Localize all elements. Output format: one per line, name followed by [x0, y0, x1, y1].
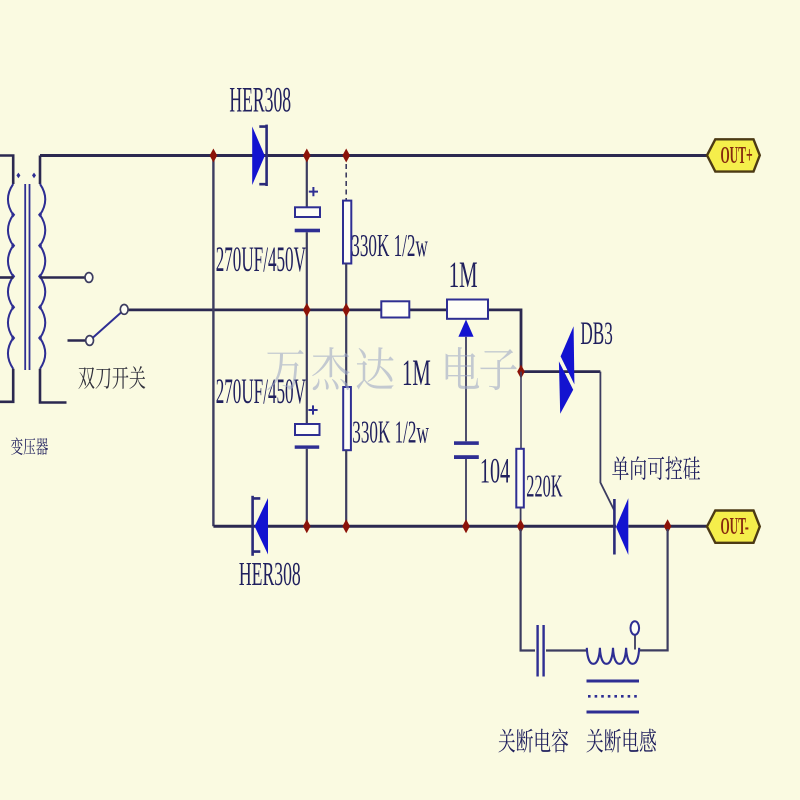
diode D2 HER308 — [253, 496, 268, 556]
inductor tap stub — [634, 635, 636, 650]
resistor R4 220K — [516, 449, 524, 508]
junction bottom bus at R branch — [342, 519, 350, 533]
capacitor C4 snubber — [538, 625, 544, 677]
transformer polarity dot right — [32, 173, 36, 179]
resistor R1 branch dashed wire upper — [345, 156, 347, 201]
wire 220K lower thin — [520, 508, 522, 527]
resistor R3 horizontal — [381, 301, 409, 317]
watermark 万杰达电子 — [267, 347, 516, 390]
wire transformer primary top lead — [0, 156, 13, 185]
switch S1 bottom contact — [86, 336, 94, 346]
thyristor SCR — [614, 498, 628, 555]
inductor L1 — [587, 648, 639, 664]
potentiometer RP 1M body — [447, 300, 488, 319]
inductor core bar 2 — [587, 711, 640, 714]
wire inductor right up to bus — [640, 529, 668, 650]
svg-text:OUT+: OUT+ — [721, 143, 753, 170]
svg-text:OUT-: OUT- — [721, 514, 749, 541]
junction bottom bus at C branch — [303, 519, 311, 533]
svg-text:330K 1/2w: 330K 1/2w — [352, 414, 429, 450]
svg-text:270UF/450V: 270UF/450V — [216, 240, 307, 280]
wire switch lower stub — [68, 339, 86, 342]
junction middle bus at R branch — [342, 303, 350, 317]
resistor R2 330K 1/2w — [343, 387, 351, 450]
transformer winding cusp dots right — [38, 212, 42, 217]
switch S1 blade — [93, 312, 121, 337]
switch S1 top contact — [85, 273, 93, 283]
wire transformer primary bottom lead — [0, 369, 13, 402]
transformer polarity dot left — [16, 173, 20, 179]
wire 220K upper thin — [520, 372, 522, 449]
svg-text:220K: 220K — [526, 469, 563, 504]
junction bottom bus at C3 — [462, 519, 470, 533]
junction top bus at C1 — [303, 149, 311, 163]
wire pot right to vertical drop — [488, 310, 521, 372]
terminal OUT- — [707, 511, 760, 543]
junction top bus at R1 — [342, 149, 350, 163]
label snubber inductor 关断电感 — [587, 729, 603, 753]
capacitor C3 104 — [454, 441, 479, 459]
svg-text:DB3: DB3 — [580, 315, 612, 351]
wire C3 lower — [465, 459, 467, 526]
transformer T1 secondary winding — [40, 184, 45, 369]
wire middle bus — [129, 308, 382, 311]
wire left vertical bus — [212, 156, 214, 527]
capacitor C2 plus sign — [308, 405, 317, 414]
wire transformer secondary bottom lead — [40, 369, 67, 403]
wire cap to inductor — [546, 649, 587, 651]
label switch 双刀开关 — [78, 367, 94, 389]
svg-text:330K 1/2w: 330K 1/2w — [351, 227, 428, 263]
label transformer 变压器 — [11, 437, 23, 455]
junction middle bus at C branch — [303, 303, 311, 317]
inductor core bar 1 — [587, 680, 640, 683]
diac DB3 — [559, 326, 575, 414]
transformer T1 primary winding — [8, 184, 13, 369]
wire transformer secondary top lead — [39, 156, 42, 185]
inductor core dotted line — [588, 695, 639, 698]
wire snubber left drop — [521, 529, 535, 651]
capacitor C1 branch wire lower — [306, 232, 308, 424]
resistor R2 branch wire lower — [345, 450, 347, 526]
resistor R1 330K 1/2w — [343, 201, 351, 264]
wire bottom bus right of SCR — [628, 525, 707, 528]
label snubber cap 关断电容 — [499, 729, 515, 753]
wire DB3 to gate drop — [600, 372, 614, 511]
wire transformer primary center tap — [0, 276, 13, 279]
diode D1 HER308 — [252, 125, 266, 186]
transformer winding cusp dots left — [11, 212, 15, 217]
transformer core lines — [25, 184, 29, 370]
junction top bus at left vertical — [210, 149, 218, 163]
switch S1 pole contact — [120, 305, 128, 315]
resistor R1 branch wire lower — [345, 264, 347, 388]
wire secondary mid tap to switch — [40, 276, 85, 279]
capacitor C2 270UF/450V — [295, 424, 320, 449]
svg-text:1M: 1M — [449, 255, 478, 296]
terminal OUT+ — [707, 139, 760, 171]
svg-text:HER308: HER308 — [239, 555, 301, 593]
wire gate branch horizontal to DB3 — [521, 370, 600, 373]
svg-text:270UF/450V: 270UF/450V — [216, 372, 307, 412]
wire middle bus right of R3 — [409, 308, 447, 311]
capacitor C1 branch wire upper — [306, 156, 308, 208]
junction bottom bus at 220K — [517, 519, 525, 533]
svg-text:104: 104 — [480, 452, 511, 491]
potentiometer wiper arrow — [458, 320, 473, 337]
junction bottom bus at SCR right — [664, 519, 672, 533]
wire top bus — [40, 154, 707, 157]
label SCR 单向可控硅 — [612, 456, 628, 480]
capacitor C1 270UF/450V — [295, 187, 320, 232]
wire bottom bus — [213, 525, 616, 528]
capacitor C2 branch wire lower — [306, 449, 308, 527]
wire wiper down — [465, 337, 467, 442]
svg-text:HER308: HER308 — [229, 81, 291, 120]
svg-text:1M: 1M — [402, 353, 431, 394]
junction gate branch — [517, 365, 525, 379]
inductor tap circle — [631, 621, 640, 635]
